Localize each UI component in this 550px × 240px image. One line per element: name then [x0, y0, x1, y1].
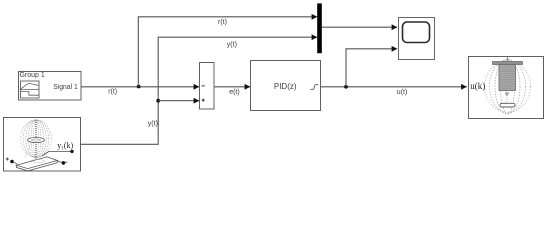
signal builder icon lower trace — [21, 91, 39, 95]
svg-text:u(k): u(k) — [470, 81, 485, 91]
svg-text:Signal 1: Signal 1 — [53, 84, 78, 91]
plant minus terminal sign — [65, 161, 67, 163]
plant center axis dotted — [35, 120, 37, 159]
node junction y(t) — [156, 99, 160, 103]
plant eddy dashed ellipse on plate — [31, 159, 44, 162]
scope screen — [403, 22, 430, 43]
svg-text:u(t): u(t) — [397, 89, 408, 96]
plant plus terminal dot — [10, 160, 14, 164]
svg-text:Group 1: Group 1 — [20, 72, 45, 79]
signal builder icon upper trace — [21, 84, 39, 89]
actuator coil body — [499, 65, 516, 91]
svg-text:e(t): e(t) — [229, 89, 240, 96]
arrowhead into actuator input — [461, 84, 467, 90]
actuator field line ellipse 3 — [490, 60, 526, 113]
plant minus terminal dot — [62, 161, 66, 165]
actuator field line ellipse 2 — [495, 59, 520, 114]
svg-text:y(t): y(t) — [148, 121, 158, 128]
signal builder block — [19, 72, 82, 101]
plant minus lead wire — [57, 161, 62, 163]
sum plus sign — [202, 99, 205, 102]
plant levitating disc — [28, 137, 45, 142]
wire y(t) branch to Sum plus input — [158, 100, 199, 102]
svg-text:r(t): r(t) — [218, 19, 227, 26]
svg-text:r(t): r(t) — [108, 88, 117, 95]
plant block (maglev photo subsystem) — [4, 118, 81, 172]
PID block — [251, 61, 321, 111]
actuator gap dotted line — [506, 91, 508, 103]
actuator coil winding lines — [499, 66, 515, 89]
arrowhead into sum top input — [194, 84, 200, 90]
plant disc inner line — [32, 139, 41, 141]
signal builder icon frame — [20, 81, 39, 98]
node junction r(t) — [137, 85, 141, 89]
actuator field line ellipse 4 — [485, 61, 531, 112]
plant plus lead wire — [14, 162, 18, 165]
wire y(t) from plant up to Mux input 2 — [81, 37, 317, 144]
plant field line ellipse 1 — [34, 120, 39, 158]
sum block — [200, 63, 215, 110]
arrowhead into scope input 2 — [392, 46, 398, 52]
signal builder icon divider — [20, 89, 39, 91]
sum minus sign — [202, 85, 205, 87]
plant cone dotted right — [41, 143, 47, 158]
plant field line ellipse 6 — [21, 120, 52, 158]
plant sensor dot — [70, 150, 73, 153]
plant field line ellipse 2 — [31, 120, 41, 158]
actuator levitating ring — [500, 103, 515, 107]
wire u(t) branch up to Scope input 2 — [346, 49, 397, 87]
actuator top bar — [493, 62, 523, 65]
plant plus terminal sign — [6, 158, 9, 161]
wire from Mux output to Scope input 1 — [322, 26, 397, 28]
scope block — [399, 18, 435, 60]
wire r(t) branch up to Mux input 1 — [138, 17, 317, 87]
plant plate top face — [16, 157, 57, 169]
wire e(t) from Sum to PID — [214, 86, 250, 88]
actuator field line ellipse 1 — [501, 59, 515, 114]
svg-text:PID(z): PID(z) — [274, 82, 297, 91]
wire u(t) from PID to actuator block — [320, 86, 467, 88]
plant sensor pointer line — [42, 151, 71, 156]
arrowhead into PID input — [245, 84, 251, 90]
svg-text:y1(k): y1(k) — [57, 141, 73, 152]
arrowhead into mux input 2 — [312, 34, 318, 40]
actuator hanger line — [507, 57, 509, 62]
plant plate thickness — [16, 161, 57, 171]
arrowhead into scope input 1 — [392, 24, 398, 30]
plant field line ellipse 4 — [26, 120, 46, 158]
mux — [317, 3, 322, 53]
arrowhead into sum bottom input — [194, 98, 200, 104]
plant cone dotted left — [25, 143, 31, 158]
actuator pole arrow — [505, 93, 508, 96]
wire r(t) from Signal Builder to Sum — [81, 86, 199, 88]
plant field line ellipse 3 — [28, 120, 43, 158]
plant field line ellipse 5 — [23, 120, 49, 158]
actuator block (maglev magnet subsystem) — [469, 57, 544, 119]
node junction u(t) — [344, 85, 348, 89]
PID saturation glyph — [310, 85, 318, 90]
arrowhead into mux input 1 — [312, 14, 318, 20]
svg-text:y(t): y(t) — [227, 42, 237, 49]
